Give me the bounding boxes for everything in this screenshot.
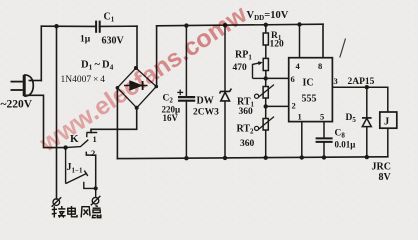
thermistor RT1 [255,78,275,106]
diode D5 2AP15 [362,87,372,157]
capacitor C8 [316,122,333,158]
wire: bridge left down to ground rail [116,88,118,159]
node dots on ground rail [184,155,369,160]
terminal: fan left [52,197,62,207]
svg-text:0.01μ: 0.01μ [335,140,356,150]
thermistor RT2 [255,106,275,157]
svg-text:1μ: 1μ [80,35,91,45]
label 接电风扇 (hand-drawn strokes) [52,206,101,218]
wire: C1 down to bridge top [136,26,138,68]
stray pen mark [340,39,346,58]
wire: VDD rail [157,24,323,26]
wire: bridge bottom to K contact 1 [91,108,137,133]
wire: to pin 2 [266,105,289,107]
char 电 [68,208,75,214]
svg-text:360: 360 [239,107,254,117]
svg-text:IC: IC [303,78,314,89]
svg-text:2AP15: 2AP15 [348,77,375,87]
wire: left vertical from plug top [40,26,42,80]
bridge rectifier D1-D4 [117,68,156,108]
svg-text:JRC: JRC [372,162,391,173]
wire: pin 1 to ground [301,122,303,158]
svg-text:2: 2 [91,148,95,158]
terminal: fan right [91,196,101,206]
wire: plug bottom lead [27,95,66,147]
svg-text:555: 555 [302,94,317,105]
svg-text:120: 120 [270,40,285,50]
char 扇 [95,206,97,207]
plug ~220V [11,75,34,96]
svg-text:1: 1 [298,112,302,122]
wire: relay J to ground rail [387,128,389,157]
node: RT1/RT2 junction / pin2 [264,104,268,108]
switch K [66,133,98,189]
wire: C1 to bridge corner [100,25,137,27]
wire: to pin 6 [266,77,289,79]
svg-text:3: 3 [334,76,338,86]
svg-text:630V: 630V [102,36,125,47]
wire: ground rail [117,157,387,159]
wire: rail end down to pin 8 [322,24,324,58]
relay contact J1-1 [66,148,96,198]
svg-text:470: 470 [233,63,248,73]
op IC 555 box [289,58,333,122]
node: RP1 bottom / pin6 [264,76,268,80]
char 接 [53,206,55,217]
svg-text:D1 ~ D4: D1 ~ D4 [81,60,114,72]
svg-text:2: 2 [292,101,296,111]
node: pin3/D5 junction [365,85,369,89]
node: K pole junction [63,145,67,149]
node dots on VDD rail [54,22,301,28]
wire: plug top lead [31,80,42,82]
wire: top-left mains rail to C1 [41,25,96,27]
node: bridge corners [116,66,159,110]
capacitor C2 electrolytic [177,26,195,158]
svg-text:J: J [384,117,389,128]
svg-text:360: 360 [240,139,255,149]
svg-text:VDD=10V: VDD=10V [247,10,289,22]
svg-text:1N4007 × 4: 1N4007 × 4 [61,75,106,85]
relay coil J [380,112,397,128]
zener DW 2CW3 [220,26,232,159]
watermark www.elecfans.com [34,0,253,158]
potentiometer RP1 [253,58,269,78]
svg-text:8: 8 [318,61,322,71]
wire: pin 3 output [332,87,387,112]
svg-text:6: 6 [291,74,295,84]
node: J1-1 to terminal junction [94,186,98,190]
char 风 [81,207,90,218]
svg-text:5: 5 [320,112,324,122]
wire: bridge right up to VDD rail [156,26,158,87]
svg-text:~220V: ~220V [1,99,33,111]
svg-text:2CW3: 2CW3 [193,108,219,118]
resistor R1 [263,25,268,58]
wire: pin 4 to rail [299,25,301,58]
wire: live drop to fan terminal (wire B) [56,26,58,199]
svg-text:DW: DW [197,96,214,107]
svg-text:8V: 8V [379,172,392,183]
svg-text:1: 1 [93,134,97,144]
svg-text:16V: 16V [163,113,179,123]
capacitor C1 [96,21,100,33]
